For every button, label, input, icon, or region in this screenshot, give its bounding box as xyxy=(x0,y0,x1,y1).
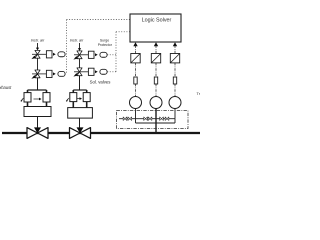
svg-text:Tra: Tra xyxy=(197,91,201,96)
svg-text:Protector: Protector xyxy=(98,43,113,47)
svg-text:Sol. valves: Sol. valves xyxy=(90,79,111,84)
svg-text:Instr. air: Instr. air xyxy=(70,38,84,42)
svg-text:Surge: Surge xyxy=(100,39,109,43)
svg-text:Instr. air: Instr. air xyxy=(31,38,45,42)
svg-text:Logic Solver: Logic Solver xyxy=(142,18,172,24)
svg-text:Exhaust: Exhaust xyxy=(0,85,12,90)
